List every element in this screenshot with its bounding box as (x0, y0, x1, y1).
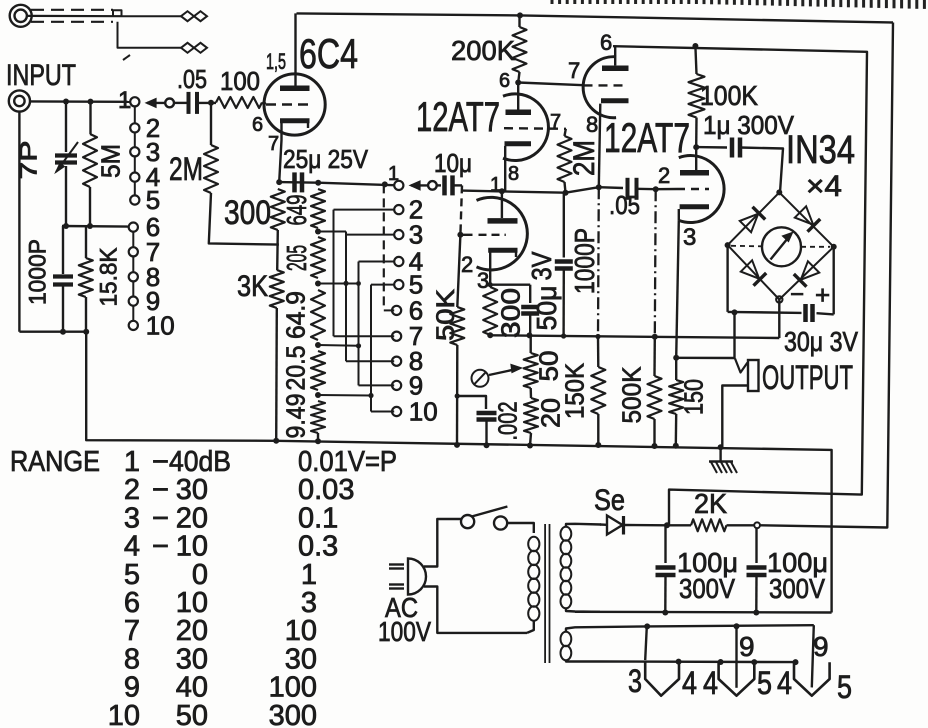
divider mid node wire to S1 contact 6 (62, 225, 129, 228)
svg-text:15.8K: 15.8K (96, 248, 123, 307)
divider tap D (315, 392, 321, 398)
V2b grid (479, 234, 506, 236)
heater V2 pins 4-9-5 (735, 626, 737, 688)
svg-text:INPUT: INPUT (6, 59, 76, 92)
resistor 50K grid leak (450, 307, 464, 345)
resistor 2M V2a grid (565, 129, 566, 136)
svg-text:100K: 100K (700, 80, 758, 111)
svg-text:IN34: IN34 (786, 128, 855, 172)
svg-text:100V: 100V (378, 616, 431, 647)
capacitor 1u 300V (696, 146, 727, 149)
divider tap B (315, 281, 321, 287)
plug to switch wires (424, 519, 461, 567)
svg-text:20: 20 (176, 502, 208, 534)
B+ wire to top rail (760, 23, 893, 528)
svg-text:40: 40 (176, 672, 208, 704)
svg-text:−: − (152, 531, 169, 563)
svg-text:3: 3 (628, 663, 642, 699)
divider tap A (315, 229, 321, 235)
S1a contact 5 (130, 195, 139, 204)
V3a plate (602, 65, 629, 71)
triode V3a envelope (583, 57, 616, 118)
svg-text:9: 9 (124, 672, 140, 704)
V2a cathode (505, 141, 532, 146)
svg-text:2: 2 (124, 474, 140, 506)
svg-text:8: 8 (508, 163, 519, 185)
150 top wire to meter loop (676, 312, 734, 358)
shielded phone plug pigtail (10, 5, 32, 27)
resistor 5M (89, 102, 91, 134)
heater top line (647, 625, 814, 626)
main ground bus (276, 441, 831, 613)
S2 wiper arm (428, 181, 437, 190)
svg-text:7: 7 (568, 58, 580, 83)
V3b cathode (680, 204, 709, 209)
heater V1 6C4 pins 3-4 (645, 626, 647, 660)
electrolytic 100u 300V second (755, 528, 757, 563)
svg-text:30μ 3V: 30μ 3V (784, 326, 858, 357)
divider chain resistor 20.5 (311, 351, 325, 390)
svg-text:7: 7 (550, 111, 561, 133)
svg-text:64.9: 64.9 (280, 291, 310, 339)
capacitor .05 (187, 92, 191, 114)
S1a contact 8 (129, 272, 138, 281)
svg-text:7P: 7P (16, 141, 43, 180)
svg-text:150K: 150K (559, 362, 589, 419)
V3b grid (677, 188, 709, 190)
AC plug (408, 559, 426, 595)
rotary switch S2 contacts (394, 181, 403, 190)
resistor 15.8K (85, 226, 87, 258)
svg-text:30: 30 (176, 474, 208, 506)
svg-text:300V: 300V (769, 573, 825, 604)
svg-text:3: 3 (477, 268, 489, 293)
svg-text:5: 5 (124, 559, 140, 591)
svg-text:300: 300 (224, 194, 271, 232)
svg-text:2K: 2K (694, 488, 727, 519)
svg-text:205: 205 (281, 245, 312, 271)
svg-text:1: 1 (490, 174, 501, 196)
electrolytic 50u 3V (490, 284, 530, 286)
svg-text:300V: 300V (679, 573, 735, 604)
svg-text:25μ 25V: 25μ 25V (283, 144, 369, 174)
V3a plate supply line (613, 46, 867, 525)
transformer core (544, 524, 546, 663)
S1a link contacts 6-10 (132, 232, 134, 248)
OUTPUT jack (748, 360, 759, 391)
svg-text:−: − (152, 502, 169, 534)
divider chain resistor 205 (311, 237, 325, 278)
electrolytic 30u 3V (803, 304, 808, 322)
wire C.05 to R100 (197, 102, 216, 104)
PSU ground line (575, 611, 832, 614)
capacitor 1000P (62, 226, 64, 274)
wire V2a plate node to V3a grid (518, 83, 583, 86)
svg-text:2M: 2M (169, 151, 203, 187)
svg-text:2M: 2M (568, 140, 601, 176)
svg-text:9.49: 9.49 (280, 394, 310, 439)
svg-text:9: 9 (739, 631, 755, 662)
svg-text:6: 6 (252, 114, 263, 136)
svg-text:10: 10 (176, 531, 208, 563)
capacitor .05 second (599, 186, 623, 189)
svg-text:100: 100 (269, 672, 317, 704)
wire R100 to 6C4 grid (262, 102, 266, 105)
B+ top rail (297, 13, 894, 22)
S1a contact 3 (130, 147, 139, 156)
svg-text:5: 5 (837, 669, 852, 705)
S1a contact 2 (130, 123, 139, 132)
resistor 3K (270, 270, 284, 308)
resistor 100 (216, 97, 262, 108)
svg-text:10μ: 10μ (434, 148, 472, 178)
svg-text:1: 1 (388, 163, 399, 185)
electrolytic 25u 25V (292, 172, 297, 192)
input ground bus (19, 332, 276, 441)
wire 300 to 3K (276, 230, 279, 270)
svg-text:10: 10 (285, 615, 317, 647)
pot 50 wiper arrow (489, 369, 519, 376)
S1a contact 6 (129, 223, 138, 232)
svg-text:4: 4 (703, 665, 718, 701)
electrolytic 10u (437, 184, 441, 186)
svg-text:6C4: 6C4 (299, 30, 358, 77)
triode V2a envelope (503, 94, 548, 161)
svg-text:6: 6 (600, 30, 612, 55)
meter M (762, 227, 801, 266)
V3b grid leak line to 500K (654, 189, 657, 337)
svg-text:0.03: 0.03 (298, 474, 354, 506)
svg-text:500K: 500K (616, 366, 646, 424)
triode 6C4 envelope (264, 74, 325, 135)
svg-text:2: 2 (461, 252, 473, 277)
resistor 150K (597, 337, 600, 368)
svg-text:0: 0 (192, 559, 208, 591)
2K output node (727, 524, 755, 526)
6C4 plate (280, 86, 310, 92)
S2 tap bus wires (318, 231, 346, 233)
chassis ground symbol (719, 447, 721, 460)
diode D3 (741, 260, 759, 278)
svg-text:10: 10 (108, 700, 140, 728)
6C4 cathode node wire (279, 181, 318, 184)
divider chain resistor 649 (311, 189, 325, 228)
svg-text:4: 4 (682, 665, 697, 701)
svg-text:10: 10 (146, 310, 175, 340)
svg-text:0.1: 0.1 (298, 502, 338, 534)
INPUT jack J1 (9, 90, 30, 111)
meter loop with 30u 3V (726, 245, 728, 312)
svg-text:8: 8 (586, 112, 598, 137)
rotary switch S1a contact 1 (130, 97, 139, 106)
svg-text:4: 4 (777, 665, 792, 701)
svg-text:3: 3 (683, 224, 696, 251)
svg-text:50K: 50K (432, 289, 460, 341)
svg-text:.05: .05 (609, 190, 640, 220)
S1a contact 10 (129, 321, 138, 330)
svg-text:5: 5 (757, 665, 772, 701)
svg-text:3: 3 (301, 587, 317, 619)
svg-text:1: 1 (124, 446, 140, 478)
OUTPUT jack sleeve to ground (722, 386, 748, 447)
6C4 cathode (280, 118, 310, 123)
wire input to S1 contact 1 (30, 100, 130, 103)
S1a wiper arm (165, 99, 174, 108)
diode D1 (740, 214, 758, 232)
resistor 200K plate load (518, 15, 520, 27)
divider tap C (315, 342, 321, 348)
resistor 300 cathode (271, 189, 285, 230)
wire input ground run (18, 112, 20, 332)
svg-text:12AT7: 12AT7 (416, 93, 500, 140)
svg-text:5M: 5M (95, 144, 125, 178)
svg-text:0.01V=P: 0.01V=P (298, 446, 397, 478)
S1a link contacts 1-5 (134, 106, 136, 123)
triode V3b envelope (679, 156, 724, 223)
svg-text:100: 100 (220, 66, 260, 96)
svg-text:7: 7 (268, 133, 279, 155)
resistor 100K (695, 46, 696, 74)
svg-text:OUTPUT: OUTPUT (762, 359, 853, 397)
svg-text:−: − (152, 446, 169, 478)
divider chain resistor 64.9 (311, 290, 325, 340)
diode bridge IN34 x4 (728, 192, 834, 299)
power switch (461, 515, 474, 528)
svg-text:50: 50 (176, 700, 208, 728)
V2b plate (488, 218, 518, 224)
resistor 150 (669, 380, 683, 414)
S1a contact 9 (129, 297, 138, 306)
resistor 2K (667, 524, 691, 526)
svg-text:0.3: 0.3 (298, 531, 338, 563)
bridge bottom to wiper wire (778, 300, 780, 339)
resistor 300 V2b cathode (483, 287, 497, 335)
svg-text:8: 8 (124, 643, 140, 675)
svg-text:20.5: 20.5 (280, 346, 310, 391)
svg-text:×4: ×4 (806, 170, 842, 203)
diode D4 (801, 261, 819, 279)
pot 50 (530, 335, 532, 353)
pigtail second lead (118, 22, 182, 48)
trimmer capacitor 7P (65, 102, 67, 153)
V3a cathode to 150K line (599, 104, 601, 188)
svg-text:3: 3 (409, 220, 423, 250)
diode D2 (795, 206, 813, 224)
svg-text:.05: .05 (177, 64, 207, 94)
svg-text:50μ: 50μ (531, 286, 562, 331)
svg-text:10: 10 (176, 587, 208, 619)
svg-text:150: 150 (678, 379, 708, 415)
svg-text:.002: .002 (492, 402, 522, 441)
svg-text:9: 9 (813, 631, 829, 662)
V3a cathode (601, 98, 629, 103)
electrolytic 50u 3V second (563, 193, 565, 258)
svg-text:1: 1 (118, 87, 131, 114)
wiper feedback wire (490, 335, 779, 338)
V3b plate (680, 170, 709, 176)
svg-text:RANGE: RANGE (10, 446, 100, 478)
svg-text:1: 1 (301, 559, 317, 591)
heater bottom line (600, 660, 798, 663)
svg-text:5: 5 (146, 185, 160, 215)
resistor 20 (530, 388, 533, 398)
svg-text:200K: 200K (451, 35, 515, 66)
svg-text:1μ 300V: 1μ 300V (703, 110, 795, 140)
svg-text:3K: 3K (237, 270, 268, 303)
svg-text:6: 6 (499, 70, 510, 92)
transformer heater winding (561, 632, 572, 660)
svg-text:1,5: 1,5 (266, 49, 286, 74)
wire 10u to grid and 50K (453, 184, 463, 186)
svg-text:649: 649 (281, 195, 312, 226)
divider chain resistor 9.49 (311, 401, 325, 433)
V3b cathode to 150 (676, 220, 679, 357)
heater V3 pins 4-9-5 (812, 625, 814, 687)
svg-text:300: 300 (269, 700, 317, 728)
wire wiper to C .05 (174, 102, 187, 104)
svg-text:30: 30 (285, 643, 317, 675)
svg-text:3V: 3V (526, 251, 557, 280)
signal wire V2b plate to .05 (462, 191, 566, 193)
electrolytic 100u 300V first (664, 525, 666, 563)
svg-text:−: − (152, 474, 169, 506)
svg-text:2: 2 (658, 163, 670, 188)
wire divider top to S2 pole (318, 183, 394, 186)
page-edge hatch marks (552, 0, 924, 9)
triode V2b envelope (477, 197, 528, 270)
V2a plate (506, 110, 532, 116)
svg-text:6: 6 (124, 587, 140, 619)
6C4 grid (266, 103, 309, 106)
svg-text:300: 300 (495, 288, 525, 338)
svg-text:30: 30 (176, 643, 208, 675)
svg-text:7: 7 (124, 615, 140, 647)
transformer T1 primary (527, 523, 534, 533)
svg-text:Se: Se (594, 484, 625, 517)
rectifier Se (600, 523, 607, 526)
svg-text:+: + (815, 280, 830, 310)
svg-text:1000P: 1000P (25, 239, 52, 305)
S1a contact 4 (130, 173, 139, 182)
svg-text:4: 4 (124, 531, 140, 563)
svg-text:−: − (790, 281, 804, 308)
V2b cathode (488, 248, 517, 253)
V3a grid (584, 84, 628, 86)
S1a contact 7 (129, 247, 138, 256)
preset symbol (472, 370, 489, 387)
svg-text:1000P: 1000P (569, 228, 600, 294)
transformer HV secondary (561, 527, 572, 609)
svg-text:10: 10 (409, 397, 438, 427)
svg-text:40dB: 40dB (169, 446, 231, 478)
meter axis dashes (731, 245, 762, 248)
resistor 2M grid leak (210, 103, 212, 145)
svg-text:3: 3 (124, 502, 140, 534)
capacitor .002 (457, 396, 486, 409)
svg-text:12AT7: 12AT7 (604, 114, 690, 161)
V2a grid (504, 127, 566, 130)
svg-text:20: 20 (176, 615, 208, 647)
resistor 500K (653, 337, 656, 376)
